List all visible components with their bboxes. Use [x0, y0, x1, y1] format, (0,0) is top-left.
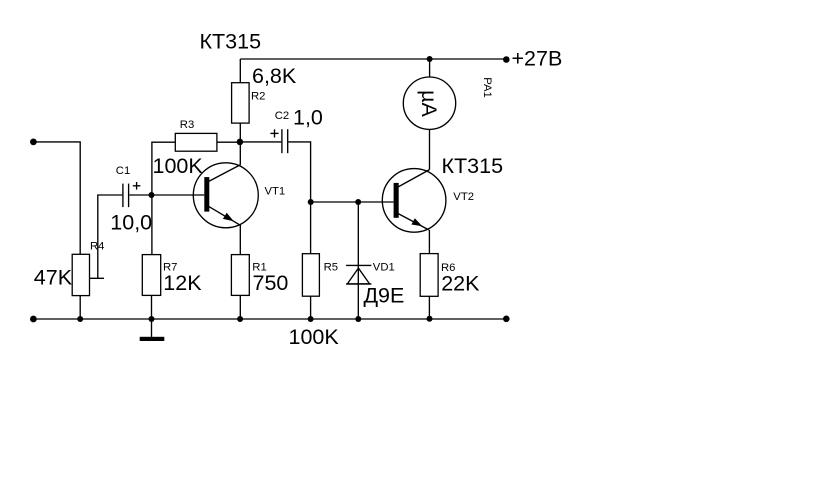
ground — [140, 319, 165, 341]
svg-text:КТ315: КТ315 — [442, 154, 504, 178]
svg-text:+27В: +27В — [512, 47, 563, 71]
svg-text:1,0: 1,0 — [293, 106, 323, 130]
wire: VD1 branch vertical — [357, 202, 359, 319]
wire: VT1 collector up to node — [239, 142, 241, 165]
svg-text:C2: C2 — [275, 110, 289, 122]
wire: R2 bottom to collector node — [239, 123, 241, 142]
svg-text:R2: R2 — [251, 90, 265, 102]
node: bus dot R4 — [77, 316, 83, 322]
wire: R5 bottom to bus — [310, 296, 312, 319]
wire: R3 right to collector node — [217, 141, 240, 143]
resistor R7 — [142, 255, 160, 296]
node: bus left terminal dot — [30, 316, 37, 323]
node: VT1 collector junction — [237, 139, 244, 146]
wire: R1 bottom to bus — [239, 295, 241, 319]
node: bus right terminal dot — [503, 316, 510, 323]
wire: meter top to rail — [429, 59, 431, 77]
wiper of R4 to C1 — [90, 195, 123, 278]
node: bus dot R5 — [308, 316, 314, 322]
svg-text:47K: 47K — [34, 266, 73, 290]
wire: ground bus — [33, 318, 506, 320]
capacitor C1 — [123, 184, 129, 208]
svg-text:VT2: VT2 — [453, 191, 474, 203]
resistor R3 — [175, 133, 217, 151]
svg-text:C1: C1 — [116, 165, 130, 177]
polarity + of C2 — [270, 129, 278, 137]
svg-text:12K: 12K — [163, 271, 202, 295]
wire: input terminal to R4 top — [33, 142, 80, 254]
node: bus dot R7/ground — [149, 316, 155, 322]
svg-text:750: 750 — [253, 271, 289, 295]
wire: C1 right plate to VT1 base — [129, 194, 204, 196]
node: base junction C1/R3 — [149, 192, 155, 198]
wire: VT1 emitter down to R1 — [239, 225, 241, 255]
node: input terminal dot — [30, 139, 37, 146]
svg-text:100K: 100K — [153, 154, 204, 178]
svg-text:VT1: VT1 — [265, 186, 286, 198]
node: bus dot VD1 — [355, 316, 361, 322]
wire: base rail down to R5 — [310, 202, 312, 254]
svg-text:µА: µА — [417, 90, 441, 117]
node: bus dot R1 — [237, 316, 243, 322]
svg-text:100K: 100K — [289, 325, 340, 349]
wire: R3 left feedback drop to base node — [152, 142, 175, 254]
capacitor C2 — [282, 129, 288, 153]
diode VD1 — [346, 265, 371, 284]
resistor R6 — [420, 254, 438, 297]
svg-text:КТ315: КТ315 — [200, 30, 262, 54]
transistor VT2 — [382, 169, 446, 233]
wire: +27V supply rail — [240, 58, 506, 60]
transistor VT1 — [193, 163, 258, 228]
resistor R2 — [232, 83, 250, 123]
wire: collector node to C2 left plate — [240, 141, 281, 143]
svg-text:6,8K: 6,8K — [252, 64, 297, 88]
node: bus dot R6 — [427, 316, 433, 322]
svg-text:22K: 22K — [441, 272, 480, 296]
wire: R6 bottom to bus — [428, 296, 430, 319]
wire: rail down to R2 top — [239, 59, 241, 83]
wire: C2 right plate to VT2 base drop — [288, 142, 310, 202]
polarity + of C1 — [133, 182, 141, 190]
resistor R5 — [302, 254, 319, 297]
resistor R1 — [231, 255, 249, 296]
svg-text:R3: R3 — [180, 119, 194, 131]
resistor R4 potentiometer 47K — [72, 254, 89, 295]
wire: VT2 base rail — [311, 201, 394, 203]
wire: R4 bottom to ground bus — [79, 296, 81, 319]
svg-text:10,0: 10,0 — [110, 211, 152, 235]
wire: R7 bottom to bus — [151, 295, 153, 319]
svg-text:VD1: VD1 — [373, 262, 395, 274]
node: junction VD1 on base rail — [355, 199, 361, 205]
meter PA1 microammeter — [403, 77, 455, 129]
node: +27V terminal dot — [503, 56, 510, 63]
node: rail junction to PA1 — [427, 56, 433, 62]
wire: VT2 emitter to R6 — [428, 230, 430, 254]
svg-text:РА1: РА1 — [481, 77, 493, 98]
svg-text:R5: R5 — [324, 262, 338, 274]
node: junction C2/R5 on base rail — [308, 199, 314, 205]
wire: VT2 collector to meter — [429, 129, 431, 169]
svg-text:Д9Е: Д9Е — [364, 284, 405, 308]
